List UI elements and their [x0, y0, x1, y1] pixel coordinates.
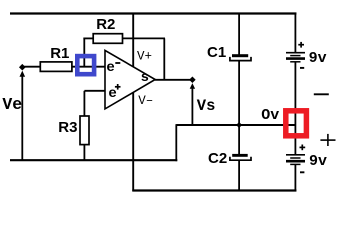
svg-text:Ve: Ve	[2, 95, 22, 114]
wire right rail middle segment	[294, 62, 296, 155]
svg-text:R1: R1	[50, 45, 69, 62]
wire C2 bottom lead	[238, 160, 240, 191]
svg-text:R2: R2	[96, 16, 115, 33]
svg-text:9v: 9v	[309, 153, 327, 170]
battery B1 (top 9v)	[286, 53, 305, 62]
battery B1 plus mark	[298, 42, 304, 48]
wire R1 to op-amp inverting input	[72, 66, 105, 68]
svg-text:9v: 9v	[309, 50, 327, 67]
input source arrow Ve	[21, 75, 23, 160]
wire down to R3	[83, 91, 85, 117]
wire C1 top lead	[238, 13, 240, 55]
output arrow Vs	[191, 87, 193, 126]
wire top supply rail	[10, 12, 296, 14]
output wire from op-amp	[155, 79, 194, 81]
svg-text:s: s	[141, 70, 149, 86]
blue square highlight (inverting node)	[77, 56, 94, 74]
red square highlight (0v node)	[286, 111, 307, 136]
wire C1 bottom lead	[238, 61, 240, 126]
resistor R1	[40, 62, 72, 72]
wire R3 bottom to ground rail	[83, 145, 85, 161]
wire input node to R1	[22, 66, 40, 68]
svg-text:C2: C2	[208, 150, 227, 167]
wire 0v line	[176, 124, 296, 126]
node dot output node	[189, 76, 196, 83]
wire left ground rail	[10, 159, 177, 161]
op-amp U1 triangle	[105, 50, 155, 109]
svg-text:e: e	[106, 60, 114, 76]
svg-text:R3: R3	[58, 119, 77, 136]
junction dot 0v node	[236, 122, 242, 128]
svg-text:V+: V+	[137, 49, 152, 63]
wire R2 right to corner	[123, 37, 166, 39]
svg-text:e: e	[108, 86, 116, 102]
battery B1 minus mark	[300, 67, 304, 69]
wire bottom rail (V- return)	[132, 189, 296, 191]
svg-text:Vs: Vs	[197, 97, 216, 115]
annotation minus (upper supply polarity)	[314, 93, 329, 95]
capacitor C2	[230, 154, 251, 160]
wire V+ supply lead from top rail to op-amp	[132, 13, 134, 67]
annotation plus (lower supply polarity)	[320, 134, 335, 146]
svg-text:V–: V–	[138, 94, 153, 108]
resistor R3	[80, 116, 89, 145]
battery B2 minus mark	[300, 171, 304, 173]
wire feedback to R2 left	[83, 37, 93, 39]
resistor R2	[93, 34, 122, 44]
wire C2 top lead	[238, 125, 240, 154]
svg-text:C1: C1	[207, 44, 226, 61]
battery B2 (bottom 9v)	[286, 155, 305, 165]
wire feedback down to output	[163, 38, 165, 79]
wire right rail upper segment	[294, 13, 296, 53]
battery B2 plus mark	[300, 145, 306, 151]
wire riser from ground rail up to 0v line	[175, 124, 177, 161]
wire e+ input lead	[84, 90, 105, 92]
wire V- supply lead from op-amp down	[132, 92, 134, 191]
svg-text:Ov: Ov	[261, 107, 279, 124]
feedback wire up from inverting node	[83, 38, 85, 67]
node dot input node	[19, 64, 26, 71]
capacitor C1	[230, 54, 251, 60]
wire right rail lower segment	[294, 164, 296, 191]
